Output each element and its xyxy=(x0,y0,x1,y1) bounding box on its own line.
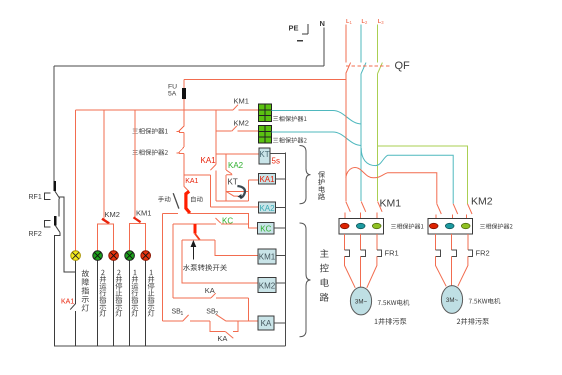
label 故障指示灯 xyxy=(82,270,90,312)
label 2井运行指示灯 xyxy=(100,270,107,317)
contactor KM1 pole1 xyxy=(345,202,350,219)
label 7.5KW电机 motor2 xyxy=(469,298,501,304)
wire KA1 lower xyxy=(215,170,217,201)
wire KA2 branch vertical xyxy=(225,154,227,170)
coil KT xyxy=(259,148,270,164)
wire KA2 coil feed xyxy=(211,206,259,208)
breaker QF pole1 xyxy=(346,63,351,74)
contactor KM1 pole3 xyxy=(377,202,382,219)
wire KM2 lamp tee xyxy=(98,224,114,251)
wire left border lower xyxy=(54,233,60,346)
svg-text:5s: 5s xyxy=(272,157,280,166)
contact KM2 lamp blade xyxy=(102,219,109,224)
svg-text:RF2: RF2 xyxy=(29,231,42,238)
wire protector1 sense xyxy=(272,111,362,125)
wire between RF1 RF2 xyxy=(58,199,60,217)
svg-text:FR2: FR2 xyxy=(476,249,490,258)
fuse FU body xyxy=(182,88,186,99)
wire fuse line to bus xyxy=(183,99,185,126)
label 保护电路 xyxy=(318,171,325,200)
wire KM1 rail stub xyxy=(276,254,286,256)
wire control bus xyxy=(76,109,216,111)
svg-text:KC: KC xyxy=(260,225,271,234)
label 三相保护器1 box xyxy=(391,224,424,230)
wire L1 upper xyxy=(345,25,347,63)
protector grid 2 xyxy=(259,126,272,144)
wire KA1 aux branch top xyxy=(184,174,211,176)
motor M1 xyxy=(350,287,371,315)
svg-text:1: 1 xyxy=(181,311,184,317)
svg-text:KA1: KA1 xyxy=(61,298,74,305)
wire L3 upper xyxy=(377,25,379,63)
label 三相保护器2 left xyxy=(132,149,167,155)
thermal FR2 elements xyxy=(436,250,473,256)
contactor KM2 pole3 xyxy=(467,204,472,219)
coil KA2 xyxy=(259,202,276,213)
svg-text:KM1: KM1 xyxy=(380,198,402,210)
protector box 2 xyxy=(428,219,473,235)
wire trip to selector xyxy=(183,154,185,187)
wire L1 main xyxy=(345,74,347,202)
svg-text:5A: 5A xyxy=(168,91,177,98)
wire KM2 coil drop xyxy=(182,240,258,283)
wire control phase top xyxy=(184,78,346,80)
label 自动 xyxy=(191,196,203,202)
contact KT delayed xyxy=(226,186,248,199)
contact KA row xyxy=(173,293,248,298)
wire KA1 aux branch vertical xyxy=(210,175,212,207)
svg-text:KA2: KA2 xyxy=(228,161,244,170)
lamp red 1 stop xyxy=(141,251,151,261)
PE ground tick xyxy=(297,40,303,42)
svg-text:PE: PE xyxy=(289,24,299,33)
contact RF2 xyxy=(45,216,61,233)
contact KA1 fault lamp xyxy=(70,304,75,310)
wire KA2 lower xyxy=(225,175,227,201)
label 1井排污泵 xyxy=(375,318,407,325)
thermal FR1 elements xyxy=(345,250,382,256)
svg-text:KM2: KM2 xyxy=(234,119,249,128)
label 1井停止指示灯 xyxy=(148,270,155,317)
svg-text:FU: FU xyxy=(168,84,177,91)
coil KM1 xyxy=(258,249,276,264)
wire lamp4 neutral xyxy=(129,260,131,346)
wire yellow lamp feed xyxy=(75,110,77,251)
svg-text:RF1: RF1 xyxy=(29,194,42,201)
svg-text:3M~: 3M~ xyxy=(355,299,368,306)
svg-text:KC: KC xyxy=(222,217,233,226)
contact KM2 row xyxy=(216,126,259,131)
wire KM1 lamp feed xyxy=(134,110,136,218)
svg-text:KT: KT xyxy=(259,150,269,159)
wire selector left xyxy=(163,212,179,214)
svg-text:KA1: KA1 xyxy=(259,175,275,184)
arrow transfer switch xyxy=(191,240,197,260)
wire KA1 branch vertical xyxy=(215,110,217,165)
label 2井排污泵 xyxy=(457,318,489,325)
wire KA1 to bottom xyxy=(74,311,76,346)
wire L1 branch xyxy=(346,168,437,204)
PE terminal symbol xyxy=(302,24,308,34)
contact RF1 xyxy=(45,181,60,199)
svg-text:KM2: KM2 xyxy=(471,196,493,208)
wire protector2 sense xyxy=(272,132,362,146)
wire KM2 lamp feed xyxy=(103,110,105,219)
wire lamp5 neutral xyxy=(145,260,147,346)
coil KA1 xyxy=(259,174,276,185)
wire left border upper xyxy=(53,66,55,182)
wire L3 main xyxy=(377,74,379,202)
protector box 1 xyxy=(339,219,384,235)
coil KC xyxy=(258,223,275,235)
lamp red 2 stop xyxy=(109,251,119,261)
svg-text:N: N xyxy=(320,19,325,28)
wire transfer tee xyxy=(182,239,215,241)
svg-text:KA: KA xyxy=(217,334,227,343)
coil KA xyxy=(258,316,274,330)
svg-text:QF: QF xyxy=(395,60,411,72)
contactor KM2 pole1 xyxy=(436,204,441,219)
contactor KM1 pole2 xyxy=(361,202,366,219)
motor M2 xyxy=(441,286,462,314)
svg-text:KA1: KA1 xyxy=(201,156,217,165)
wire right coil rail xyxy=(285,153,287,346)
wire selector common jog xyxy=(184,186,189,191)
contact KM1 lamp blade xyxy=(134,217,141,222)
label 7.5KW电机 motor1 xyxy=(378,300,410,306)
wire L3 branch xyxy=(378,146,468,204)
wire lamp3 neutral xyxy=(113,260,115,346)
wire N top horizontal to enclosure xyxy=(54,65,324,67)
svg-text:KM2: KM2 xyxy=(259,281,276,290)
wire KM2 rail stub xyxy=(276,282,286,284)
svg-text:KA: KA xyxy=(261,319,272,328)
wire L2 main xyxy=(360,74,362,202)
wire L2 branch xyxy=(361,148,453,204)
wire lamp2 neutral xyxy=(97,260,99,346)
svg-text:FR1: FR1 xyxy=(385,249,399,258)
label 三相保护器2 box xyxy=(480,224,513,230)
svg-text:KM1: KM1 xyxy=(259,253,276,262)
label 1井运行指示灯 xyxy=(132,270,139,317)
contact protector trip 1 xyxy=(177,126,184,133)
svg-text:KM2: KM2 xyxy=(105,210,120,219)
wire KA2 rail stub xyxy=(276,207,286,209)
contactor KM2 pole2 xyxy=(452,204,457,219)
wire selector right xyxy=(188,213,258,228)
switch pump transfer blade xyxy=(195,234,200,240)
wire between trips xyxy=(183,133,185,148)
wire KC rail vertical xyxy=(172,224,174,298)
wire KT rail stub xyxy=(270,153,286,155)
label 三相保护器1 right xyxy=(273,116,307,122)
wire box1 to FR xyxy=(344,234,346,250)
label 2井停止指示灯 xyxy=(116,270,123,317)
svg-text:KA2: KA2 xyxy=(259,204,275,213)
wire fuse line upper xyxy=(183,79,185,88)
wire FR1 to motor xyxy=(345,256,377,288)
wire bottom border xyxy=(54,345,286,347)
brace main control circuit xyxy=(300,223,311,337)
contact SB2 xyxy=(216,315,258,321)
wire KA1 rail stub xyxy=(276,178,286,180)
svg-text:KA: KA xyxy=(205,286,215,295)
wire KA row to SB row xyxy=(247,298,249,321)
svg-text:KM1: KM1 xyxy=(234,96,249,105)
svg-text:KM1: KM1 xyxy=(136,209,151,218)
breaker QF tie dashed xyxy=(346,65,391,67)
lamp green 1 run xyxy=(125,251,135,261)
svg-text:3M~: 3M~ xyxy=(446,297,459,304)
protector grid 1 xyxy=(259,104,272,122)
svg-text:KA1: KA1 xyxy=(185,178,198,185)
contact KC row xyxy=(173,218,249,224)
wire manual rail xyxy=(162,213,164,321)
contact KA1 xyxy=(210,165,216,171)
contact SB1 xyxy=(163,315,210,321)
contact protector trip 2 xyxy=(177,147,184,154)
contact KA selfhold xyxy=(210,321,238,338)
label 手动 xyxy=(158,196,170,202)
wire box2 to FR xyxy=(435,234,437,250)
coil KM2 xyxy=(258,278,276,293)
label 三相保护器2 right xyxy=(273,137,307,143)
svg-text:KT: KT xyxy=(228,178,238,187)
wire RF branch vertical xyxy=(59,197,76,272)
wire KA1 coil feed vertical xyxy=(248,180,250,201)
wire KA rail stub xyxy=(274,322,286,324)
breaker QF pole3 xyxy=(378,63,383,74)
wire parallel bottom xyxy=(216,200,249,202)
brace protection circuit xyxy=(300,146,311,204)
contact KA2 xyxy=(226,170,232,175)
label 三相保护器1 left xyxy=(132,128,167,134)
wire FR2 to motor xyxy=(436,256,468,286)
contact KM1 row xyxy=(216,105,259,110)
wire below yellow lamp xyxy=(74,260,76,304)
switch pump transfer bar xyxy=(193,224,196,234)
wire KA1 coil feed xyxy=(249,179,259,181)
wire KT coil row xyxy=(216,153,259,155)
lamp yellow fault xyxy=(71,251,81,261)
wire L2 upper xyxy=(360,25,362,63)
label 水泵转换开关 xyxy=(183,264,227,271)
wire KM1 coil drop xyxy=(215,240,258,256)
breaker QF pole2 xyxy=(361,63,366,74)
wire N vertical drop xyxy=(323,28,325,67)
switch manual blade xyxy=(173,193,179,208)
wire KM1 lamp tee xyxy=(130,224,146,252)
switch auto bracket xyxy=(186,191,190,213)
lamp green 2 run xyxy=(93,251,103,261)
wire KC rail stub xyxy=(274,227,286,229)
label 主控电路 xyxy=(320,249,329,301)
